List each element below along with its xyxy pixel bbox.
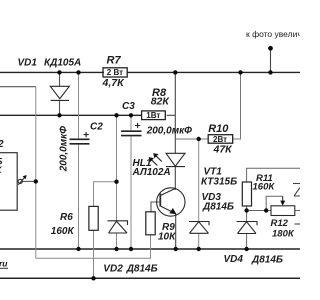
wire lower rail [0, 248, 300, 250]
svg-text:2Вт: 2Вт [213, 135, 227, 144]
junction rail2 VD2 [114, 113, 118, 117]
svg-text:КД105А: КД105А [44, 58, 81, 69]
wire emitter to rail [175, 214, 177, 250]
junction rail2 C3 [129, 113, 133, 117]
svg-text:10К: 10К [158, 232, 176, 243]
wire C2 branch [78, 72, 80, 249]
junction rail3 C3 [129, 247, 133, 251]
diode VD1 [50, 86, 69, 100]
wire VD2 branch [116, 115, 118, 249]
potentiometer R12 [271, 196, 295, 215]
wire y258 to R9 [36, 235, 151, 258]
svg-text:к фото увеличителю: к фото увеличителю [246, 29, 300, 39]
wire vertical x36 [35, 87, 37, 259]
junction VD2 R6 [114, 180, 118, 184]
svg-text:АЛ102А: АЛ102А [132, 167, 171, 178]
wire from block top [0, 86, 36, 88]
svg-text:VD2: VD2 [103, 264, 123, 275]
svg-text:VD4: VD4 [224, 254, 244, 265]
wire VD1 leads [59, 72, 61, 115]
svg-text:160К: 160К [51, 226, 75, 237]
resistor R7 [103, 68, 127, 77]
junction R12 wiper [264, 208, 268, 212]
block box left [0, 153, 17, 211]
fragment right edge bar [293, 183, 300, 185]
svg-text:R7: R7 [107, 55, 122, 67]
svg-text:Д814Б: Д814Б [202, 202, 234, 213]
junction top rail x175 [173, 70, 177, 74]
wire C3 branch [130, 115, 132, 249]
wire second rail [0, 114, 142, 116]
wire R11 bottom VD4 [246, 206, 248, 249]
wire top rail right segment [127, 71, 300, 73]
zener VD3 [189, 222, 209, 234]
label fragment in block [0, 157, 3, 176]
wire R12 wiper jog [266, 196, 283, 210]
wire top rail left segment [0, 71, 104, 73]
wire terminal riser [270, 48, 272, 72]
svg-text:2 Вт: 2 Вт [107, 68, 123, 77]
capacitor C2 [70, 132, 90, 144]
svg-text:ru: ru [0, 259, 8, 269]
wire R10 right riser [234, 72, 241, 139]
svg-text:180К: 180К [272, 229, 295, 240]
junction top rail C2 [76, 70, 80, 74]
resistor R8 [142, 111, 166, 120]
resistor R9 [146, 212, 155, 235]
svg-text:200,0мкФ: 200,0мкФ [146, 126, 192, 137]
resistor R10 [208, 135, 233, 144]
junction rail3 C2 [76, 247, 80, 251]
svg-text:Д814Б: Д814Б [251, 254, 283, 265]
wire VT1 base to R9 [151, 202, 161, 212]
wire bottom rail [0, 277, 300, 279]
junction y139 VD3 [197, 137, 201, 141]
fragment right edge lower bar [295, 223, 301, 225]
junction rail3 emitter [174, 247, 178, 251]
label watermark ru [0, 259, 8, 269]
terminal dot to photo enlarger [268, 46, 273, 51]
junction rail3 VD2 [114, 247, 118, 251]
svg-text:КТ315Б: КТ315Б [201, 176, 237, 187]
LED HL1 [149, 153, 185, 167]
svg-text:4,7К: 4,7К [102, 77, 126, 89]
capacitor C3 [121, 123, 142, 136]
wire R6 branch [94, 182, 117, 279]
svg-text:С3: С3 [122, 101, 135, 112]
fragment right edge triangle [294, 188, 300, 197]
svg-text:1Вт: 1Вт [146, 111, 160, 120]
wire second rail stub right of R8 [167, 114, 176, 116]
svg-text:160К: 160К [253, 181, 276, 192]
wire y139 to R10 [175, 138, 208, 140]
zener VD4 [237, 222, 258, 234]
resistor R11 [242, 182, 251, 206]
junction top rail x270 [268, 70, 272, 74]
svg-text:200,0мкФ: 200,0мкФ [59, 126, 70, 172]
zener VD2 [108, 221, 128, 233]
junction top rail VD1 [57, 70, 61, 74]
wire HL1 collector branch [174, 72, 176, 190]
svg-text:R10: R10 [208, 123, 229, 135]
svg-text:82К: 82К [151, 95, 171, 107]
junction rail3 VD4 [244, 247, 248, 251]
wire R12 right stub [295, 210, 300, 212]
junction R11 bottom [244, 208, 248, 212]
resistor R6 [89, 206, 98, 230]
svg-text:R12: R12 [271, 218, 289, 229]
junction x36 terminal [34, 179, 38, 183]
terminal circle with arrow [18, 175, 27, 185]
junction bottom rail R6 [91, 276, 95, 280]
junction rail2 VD1 [57, 113, 61, 117]
junction top rail x240 [238, 70, 242, 74]
svg-text:47К: 47К [213, 144, 234, 156]
wire y168 right [247, 168, 300, 182]
svg-text:VD1: VD1 [18, 58, 38, 69]
wire terminal to x36 [22, 180, 36, 182]
wire VD3 branch [198, 139, 200, 249]
wire y210 to R12 [247, 210, 271, 212]
svg-text:R6: R6 [60, 212, 73, 223]
svg-text:2: 2 [0, 139, 4, 150]
junction rail3 VD3 [197, 247, 201, 251]
svg-text:С2: С2 [90, 122, 103, 133]
svg-text:Д814Б: Д814Б [126, 264, 158, 275]
transistor VT1 [157, 188, 185, 216]
